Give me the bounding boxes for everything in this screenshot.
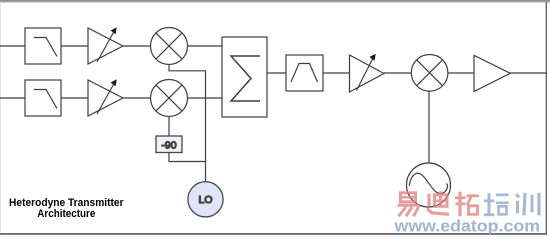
wire [267,72,286,74]
svg-text:-90: -90 [161,140,176,152]
output amplifier A4 [474,55,510,91]
filter F2 lowpass [25,80,61,116]
wire mixer M3 to oscillator [428,91,430,163]
svg-text:www.edatop.com: www.edatop.com [393,217,540,235]
wire LO to mixer M1 [169,65,206,182]
wire [448,72,474,74]
title text [9,197,124,220]
svg-text:LO: LO [198,194,212,206]
char 5 (512-540) [516,193,539,216]
char 3 (454-480) [455,192,479,217]
wire input 1 [0,45,25,47]
watermark [393,191,540,235]
mixer M3 [411,55,448,92]
filter F3 bandpass [286,55,323,91]
char 4 (483-509) [484,193,509,215]
wire [61,97,88,99]
char 1 (396-422) [398,193,421,217]
oscillator OSC2 sine [407,163,451,207]
mixer M1 [151,28,188,65]
svg-text:Architecture: Architecture [37,208,95,220]
wire [188,97,223,99]
wire [323,72,350,74]
wire to output [510,72,546,74]
wire [123,45,151,47]
wire input 2 [0,97,25,99]
oscillator LO [188,182,223,217]
phase shifter -90 [156,136,182,153]
wire phase shifter to LO line [169,153,206,162]
wire mixer M2 to phase shifter [168,117,170,137]
wire [61,45,88,47]
char 2 (425-451) [427,191,449,214]
wire [123,97,151,99]
wire [188,45,223,47]
filter F1 lowpass [25,28,61,64]
variable amplifier A1 [88,27,123,64]
summer U1 [222,37,267,117]
mixer M2 [151,80,188,117]
wire [384,72,411,74]
variable amplifier A3 [350,54,385,92]
variable amplifier A2 [88,79,123,116]
